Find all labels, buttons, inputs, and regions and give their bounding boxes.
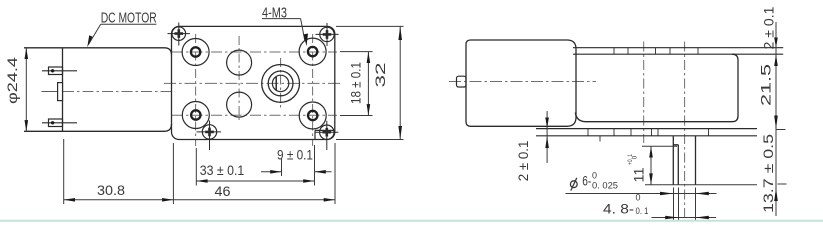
svg-text:2 ± 0.1: 2 ± 0.1 — [516, 141, 531, 182]
side centerline motor axis — [449, 81, 596, 83]
FRONT VIEW — [24, 19, 343, 204]
svg-text:30.8: 30.8 — [97, 182, 125, 198]
arrows 2+-0.1 top — [774, 38, 778, 48]
svg-text:21.5: 21.5 — [759, 64, 774, 106]
dim 4.8 — [652, 217, 717, 219]
svg-text:2 ± 0.1: 2 ± 0.1 — [762, 7, 777, 50]
arrow 13.7 bottom — [774, 188, 778, 201]
svg-text:4. 8-: 4. 8- — [603, 202, 634, 217]
dim 30.8 — [64, 139, 174, 204]
svg-text:DC MOTOR: DC MOTOR — [101, 10, 157, 27]
dim 32 — [336, 26, 404, 139]
dim 11 — [642, 145, 677, 147]
svg-text:0: 0 — [632, 155, 639, 159]
svg-text:9 ± 0.1: 9 ± 0.1 — [277, 147, 313, 163]
SIDE VIEW — [449, 22, 787, 222]
side motor body — [466, 40, 576, 126]
centerline motor axis — [42, 91, 58, 93]
svg-text:4-M3: 4-M3 — [262, 4, 287, 21]
dim phi6 leader/dim line — [566, 193, 717, 195]
svg-text:13.7 ± 0.5: 13.7 ± 0.5 — [761, 134, 776, 213]
gear circle upper — [227, 50, 252, 75]
corner screw bottom-right — [315, 121, 338, 150]
terminal tab bottom — [42, 122, 77, 124]
output shaft side view — [673, 136, 695, 185]
dim 9 — [261, 158, 332, 176]
svg-text:φ24.4: φ24.4 — [5, 56, 20, 104]
M3 hole top-left — [182, 39, 209, 66]
svg-text:0. 025: 0. 025 — [592, 181, 618, 191]
svg-text:32: 32 — [373, 63, 388, 88]
motor rear bump — [58, 83, 63, 101]
M3 hole top-right — [299, 38, 326, 65]
centerline M3 right column — [312, 34, 314, 146]
dim 18 +-0.1 — [340, 52, 373, 116]
output shaft boss circles — [262, 65, 300, 103]
svg-text:11: 11 — [632, 168, 647, 183]
side motor shaft nub — [457, 76, 467, 87]
gearbox case side — [575, 54, 738, 122]
svg-text:0. 1: 0. 1 — [636, 206, 649, 216]
svg-text:33 ± 0.1: 33 ± 0.1 — [200, 162, 245, 178]
label 4-M3 — [262, 19, 308, 47]
side centerline output shaft axis — [684, 42, 686, 222]
terminal tab top — [42, 70, 77, 72]
side centerline gear axis — [643, 42, 645, 144]
motor body front view — [24, 48, 172, 55]
right dimension column line — [776, 22, 787, 216]
arrow 21.5 bottom — [774, 116, 778, 130]
label DC MOTOR — [87, 24, 156, 47]
centerline shaft axis horizontal — [164, 82, 343, 84]
gearbox face outline — [172, 26, 335, 139]
text phi6 tolerance — [570, 178, 577, 191]
shaft end line (also extension for 11 and 13.7 dims) — [645, 184, 757, 186]
gear circle lower — [227, 92, 252, 117]
dim 46 — [173, 143, 335, 204]
dim 33 — [196, 145, 314, 186]
centerline shaft column — [280, 58, 282, 110]
bottom teal border line — [0, 220, 823, 222]
svg-text:6-: 6- — [582, 174, 591, 189]
dim 2+-0.1 bottom left — [546, 111, 548, 163]
svg-text:18 ± 0.1: 18 ± 0.1 — [349, 62, 364, 104]
corner screw top-right — [316, 23, 339, 46]
notch bottom-right — [315, 130, 335, 139]
centerline gear column — [238, 36, 240, 120]
M3 hole bottom-left — [182, 102, 209, 129]
corner screw top-left — [168, 23, 191, 46]
gearbox bottom plate — [536, 129, 757, 136]
svg-text:0: 0 — [636, 193, 641, 203]
shaft D-flat chord — [275, 77, 277, 90]
M3 hole bottom-right — [299, 102, 326, 129]
gearbox top plate — [573, 48, 783, 55]
svg-text:0: 0 — [592, 171, 597, 181]
corner screw bottom-left — [197, 121, 222, 151]
centerline M3 top row — [172, 51, 337, 53]
dim phi24.4 — [25, 48, 27, 132]
svg-text:46: 46 — [215, 183, 231, 199]
extension lines below shaft end — [674, 188, 696, 222]
centerline M3 bottom row — [172, 114, 337, 116]
centerline M3 left column — [195, 34, 197, 146]
